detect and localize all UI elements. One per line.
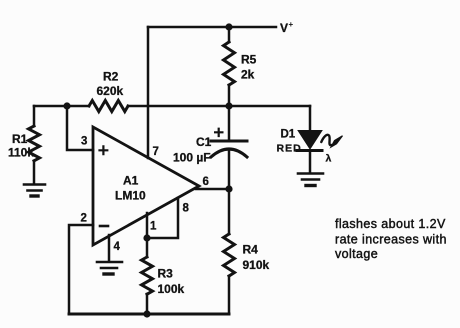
resistor R4 <box>224 234 235 276</box>
svg-text:flashes about 1.2V: flashes about 1.2V <box>335 217 446 231</box>
svg-text:2: 2 <box>81 213 87 225</box>
svg-text:7: 7 <box>153 146 159 158</box>
wire pin3 from node down and right <box>67 106 93 150</box>
resistor R2 620k <box>89 101 128 112</box>
wire R4 bottom <box>228 276 231 314</box>
wire C1 bottom <box>228 150 231 189</box>
wire R1 bottom <box>33 161 36 184</box>
capacitor C1 top plate <box>211 140 247 143</box>
wire R3 bottom <box>146 294 149 314</box>
node left junction <box>63 102 70 109</box>
wire left horizontal with R2 <box>34 105 89 108</box>
wire pin7 vertical from top rail to op-amp <box>147 27 150 158</box>
svg-text:2k: 2k <box>241 68 255 82</box>
svg-text:1: 1 <box>150 221 157 233</box>
capacitor C1 bottom curved plate <box>211 149 247 157</box>
node bottom junction <box>143 310 150 317</box>
svg-text:8: 8 <box>183 203 190 215</box>
resistor R3 <box>142 257 153 294</box>
svg-text:100k: 100k <box>158 282 185 296</box>
svg-text:A1: A1 <box>123 174 139 188</box>
svg-text:910k: 910k <box>243 258 270 272</box>
wire pin2 stub and left vertical <box>69 225 93 314</box>
svg-text:+: + <box>289 20 294 29</box>
ground pin4 <box>97 262 122 274</box>
LED light arrow <box>321 135 331 145</box>
svg-text:V: V <box>280 21 288 35</box>
svg-text:100 µF: 100 µF <box>173 151 211 165</box>
plus input symbol <box>100 146 108 154</box>
svg-text:R3: R3 <box>158 267 174 281</box>
node output junction <box>225 185 232 192</box>
diode D1 cathode bar <box>297 149 322 152</box>
minus input symbol <box>100 225 108 228</box>
wire output node to R4 <box>228 189 231 234</box>
svg-text:6: 6 <box>203 176 209 188</box>
svg-text:R1: R1 <box>12 132 28 146</box>
wire top rail V+ <box>148 26 276 29</box>
resistor R5 <box>224 42 235 85</box>
wire node to LED <box>229 105 310 108</box>
svg-text:C1: C1 <box>196 135 212 149</box>
node mid junction <box>225 102 232 109</box>
wire R1 column <box>33 106 36 126</box>
svg-text:3: 3 <box>81 136 87 148</box>
svg-text:R4: R4 <box>243 243 259 257</box>
wire LED anode <box>309 106 312 131</box>
wire bottom rail <box>69 313 229 316</box>
svg-text:voltage: voltage <box>335 247 378 261</box>
ground LED <box>298 174 323 186</box>
svg-text:620k: 620k <box>97 84 124 98</box>
svg-text:110k: 110k <box>8 146 34 160</box>
wire R5 column top <box>228 27 231 42</box>
svg-text:R2: R2 <box>103 70 119 84</box>
svg-text:RED: RED <box>277 143 302 155</box>
node pin1 junction <box>143 234 150 241</box>
wire R5 bottom to mid node <box>228 85 231 141</box>
wire pin4 <box>108 235 111 261</box>
resistor R1 <box>29 126 40 161</box>
wire R2 right to node <box>128 105 229 108</box>
svg-text:R5: R5 <box>241 53 257 67</box>
node top-rail junction <box>225 23 232 30</box>
ground R1 <box>24 185 45 197</box>
wire output pin6 <box>196 188 229 191</box>
svg-text:rate increases with: rate increases with <box>335 233 447 247</box>
wire LED cathode <box>309 152 312 173</box>
wire pin8 <box>147 198 178 238</box>
op-amp U1 triangle <box>93 127 199 245</box>
svg-text:LM10: LM10 <box>115 189 146 203</box>
svg-text:D1: D1 <box>281 129 296 141</box>
capacitor C1 plus sign <box>215 129 222 136</box>
wire pin1 node to R3 <box>146 238 149 257</box>
svg-text:λ: λ <box>326 153 332 165</box>
svg-text:4: 4 <box>114 241 121 253</box>
diode D1 LED triangle <box>299 131 321 148</box>
wire pin1 <box>146 213 149 238</box>
